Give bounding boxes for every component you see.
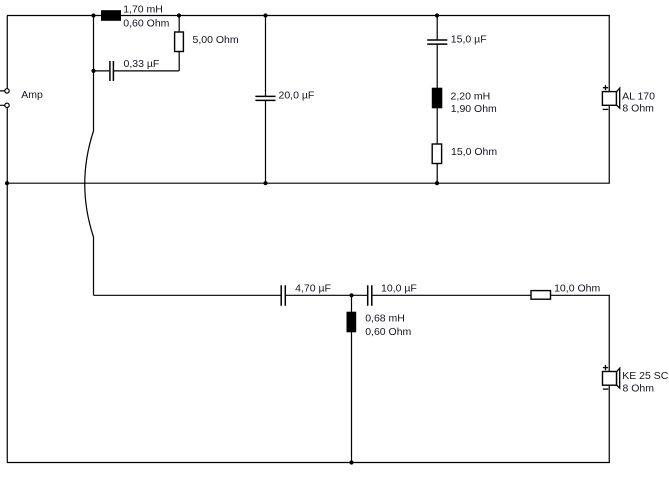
- svg-text:0,68 mH: 0,68 mH: [365, 313, 405, 325]
- svg-text:1,90 Ohm: 1,90 Ohm: [451, 103, 497, 115]
- svg-text:2,20 mH: 2,20 mH: [451, 91, 491, 103]
- svg-text:0,60 Ohm: 0,60 Ohm: [365, 326, 411, 338]
- svg-text:20,0 µF: 20,0 µF: [279, 90, 315, 102]
- svg-text:10,0 Ohm: 10,0 Ohm: [554, 282, 600, 294]
- svg-text:0,33 µF: 0,33 µF: [124, 58, 160, 70]
- svg-text:15,0 Ohm: 15,0 Ohm: [451, 146, 497, 158]
- svg-text:5,00 Ohm: 5,00 Ohm: [193, 34, 239, 46]
- svg-text:0,60 Ohm: 0,60 Ohm: [123, 18, 169, 30]
- svg-text:KE 25 SC: KE 25 SC: [622, 370, 669, 382]
- svg-text:15,0 µF: 15,0 µF: [451, 33, 487, 45]
- svg-text:1,70 mH: 1,70 mH: [123, 3, 163, 15]
- svg-text:Amp: Amp: [21, 89, 43, 101]
- svg-text:8 Ohm: 8 Ohm: [622, 102, 654, 114]
- svg-text:4,70 µF: 4,70 µF: [295, 283, 331, 295]
- svg-text:8 Ohm: 8 Ohm: [623, 382, 655, 394]
- svg-text:AL 170: AL 170: [622, 90, 655, 102]
- svg-text:10,0 µF: 10,0 µF: [381, 283, 417, 295]
